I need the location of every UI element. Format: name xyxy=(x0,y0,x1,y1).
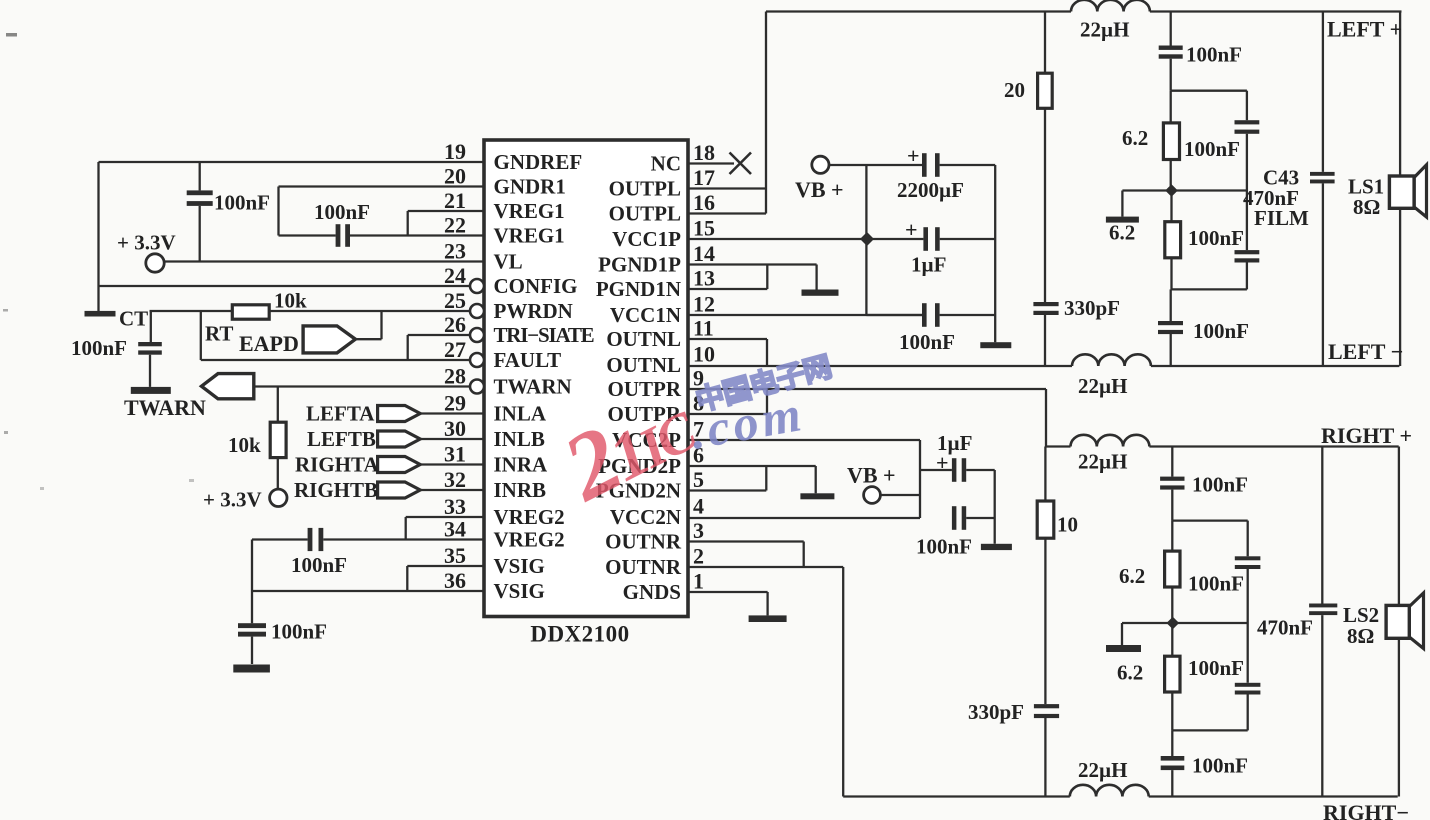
wire pin5 PGND2N xyxy=(688,489,766,491)
svg-text:10: 10 xyxy=(693,342,715,367)
svg-text:PGND1N: PGND1N xyxy=(596,277,681,301)
svg-text:TRI−SIATE: TRI−SIATE xyxy=(494,323,594,347)
ground PGND2 xyxy=(800,493,834,499)
svg-text:OUTNL: OUTNL xyxy=(606,327,681,351)
svg-text:11: 11 xyxy=(693,316,714,341)
tag RIGHTA input flag xyxy=(378,457,421,473)
svg-text:16: 16 xyxy=(693,190,715,215)
capacitor C6 2200uF xyxy=(922,153,927,177)
capacitor C9 1uF xyxy=(952,458,957,482)
wire junction to right branch R xyxy=(1173,622,1248,624)
wire R3 to 330pF xyxy=(1044,108,1046,302)
wire pin20 GNDR1 xyxy=(279,185,485,187)
svg-text:RIGHTB: RIGHTB xyxy=(294,478,378,502)
tag TWARN flag symbol xyxy=(202,374,254,399)
wire pin11-10 link xyxy=(766,339,768,365)
wire pin15 VCC1P to 1uF xyxy=(688,238,923,240)
capacitor C20 100nF (right bottom) xyxy=(1161,756,1185,761)
wire pin10 OUTNL long rail xyxy=(688,365,1072,367)
capacitor C8 100nF xyxy=(922,303,927,327)
wire pin35-36 link xyxy=(406,566,408,591)
svg-text:VL: VL xyxy=(494,250,523,274)
wire EAPD lead xyxy=(355,338,381,340)
wire right top rail A xyxy=(1046,445,1071,447)
svg-text:100nF: 100nF xyxy=(1192,754,1248,778)
wire C9 left lead xyxy=(920,469,952,471)
wire pin28 branch down xyxy=(277,387,279,423)
svg-text:23: 23 xyxy=(444,239,466,264)
svg-text:18: 18 xyxy=(693,140,715,165)
svg-text:17: 17 xyxy=(693,165,715,190)
no-connect X at pin 18 xyxy=(730,153,752,175)
terminal VB+ circle (left ch) xyxy=(812,156,829,173)
wire pin20 drop xyxy=(277,187,279,236)
wire pin26-pin27 link xyxy=(407,335,409,360)
wire to C20 xyxy=(1171,730,1173,756)
wire VB right vert (right ch) xyxy=(994,470,996,544)
svg-text:100nF: 100nF xyxy=(291,553,347,577)
svg-text:6.2: 6.2 xyxy=(1117,661,1143,685)
svg-text:10k: 10k xyxy=(274,289,307,313)
wire PGND1 ground drop xyxy=(815,265,817,290)
svg-text:OUTNR: OUTNR xyxy=(605,555,682,579)
svg-text:100nF: 100nF xyxy=(1188,226,1244,250)
svg-text:35: 35 xyxy=(444,543,466,568)
wire R6 stub from rail xyxy=(1044,447,1046,502)
wire 20ohm drop from rail xyxy=(1044,12,1046,74)
svg-text:RIGHT−: RIGHT− xyxy=(1323,800,1409,820)
wire VSIG branch down xyxy=(251,540,253,624)
capacitor C21 470nF xyxy=(1309,604,1337,608)
wire left bus vertical xyxy=(97,162,99,312)
tag LEFTB input flag xyxy=(378,431,421,447)
wire C8 to right vert xyxy=(940,314,996,316)
wire VB+ to 2200uF xyxy=(829,164,922,166)
svg-text:LEFTB: LEFTB xyxy=(307,427,376,451)
wire C15 to rail xyxy=(1170,334,1172,366)
wire pin18 NC stub xyxy=(688,162,734,164)
svg-text:RT: RT xyxy=(205,322,233,346)
wire right bottom rail A xyxy=(843,795,1070,797)
svg-text:22µH: 22µH xyxy=(1078,374,1127,398)
wire pin9 OUTPR long xyxy=(688,388,1046,390)
svg-text:DDX2100: DDX2100 xyxy=(530,622,629,647)
resistor R4 6.2 xyxy=(1163,123,1179,160)
terminal VB+ circle (right ch) xyxy=(864,487,881,504)
wire pin13-14 link xyxy=(766,265,768,290)
capacitor C3 100nF at CT xyxy=(138,342,162,346)
wire pin8-9 link xyxy=(766,389,768,414)
svg-text:100nF: 100nF xyxy=(314,200,370,224)
svg-text:VCC2N: VCC2N xyxy=(610,505,681,529)
svg-text:OUTNR: OUTNR xyxy=(605,530,682,554)
svg-text:VB +: VB + xyxy=(847,463,896,488)
wire pin12 VCC1N row xyxy=(688,314,922,316)
svg-text:100nF: 100nF xyxy=(271,620,327,644)
inductor L2 22uH (left bottom) xyxy=(1072,354,1151,366)
svg-text:21: 21 xyxy=(444,188,466,213)
terminal +3.3V circle (top) xyxy=(146,254,164,272)
svg-text:24: 24 xyxy=(444,263,466,288)
svg-text:100nF: 100nF xyxy=(1193,319,1249,343)
capacitor C2 100nF xyxy=(336,224,341,247)
svg-text:EAPD: EAPD xyxy=(239,331,299,356)
svg-text:28: 28 xyxy=(444,364,466,389)
capacitor C15 100nF (left bottom) xyxy=(1158,321,1183,325)
svg-text:470nF: 470nF xyxy=(1257,616,1313,640)
wire cap C12 stub from rail xyxy=(1170,12,1172,46)
wire pin2 OUTNR long xyxy=(688,566,843,568)
svg-text:2200µF: 2200µF xyxy=(897,178,964,202)
wire pin1 GNDS xyxy=(688,591,768,593)
ground left zobel xyxy=(1106,217,1139,223)
wire left top rail A xyxy=(766,10,1071,12)
svg-text:VREG2: VREG2 xyxy=(494,505,565,529)
svg-text:32: 32 xyxy=(444,467,466,492)
wire C21 drop from rail xyxy=(1321,447,1323,604)
svg-text:+: + xyxy=(907,143,920,168)
svg-text:4: 4 xyxy=(693,494,704,519)
wire C7 to right vert xyxy=(940,238,996,240)
svg-text:LEFT +: LEFT + xyxy=(1327,17,1402,42)
wire right branch mid xyxy=(1246,134,1248,250)
junction right zobel mid xyxy=(1167,617,1180,630)
svg-text:10: 10 xyxy=(1057,513,1078,537)
svg-text:CT: CT xyxy=(119,307,148,331)
wire LEFTB to pin 30 xyxy=(420,438,484,440)
resistor R6 10 xyxy=(1037,501,1054,538)
wire pin5-6 link xyxy=(765,466,767,491)
wire pin27 FAULT row xyxy=(201,359,470,361)
svg-text:INRA: INRA xyxy=(494,453,549,477)
wire branch mid R xyxy=(1247,569,1249,683)
wire pin35 VSIG xyxy=(407,565,484,567)
wire R4 stub xyxy=(1170,91,1172,123)
wire LS1 top lead xyxy=(1399,12,1401,177)
svg-text:100nF: 100nF xyxy=(1184,137,1240,161)
svg-text:+ 3.3V: + 3.3V xyxy=(203,488,262,512)
svg-text:29: 29 xyxy=(444,391,466,416)
wire VCC2P drop xyxy=(919,440,921,518)
wire 10k2 to +3.3V xyxy=(277,458,279,489)
svg-text:VREG1: VREG1 xyxy=(494,199,565,223)
wire junction to right branch xyxy=(1172,189,1247,191)
wire pin24 CONFIG to left bus xyxy=(99,285,471,287)
ground GNDS xyxy=(749,615,787,622)
resistor R2 10k xyxy=(270,422,286,457)
wire R6 to 330pF xyxy=(1044,538,1046,704)
svg-text:OUTPR: OUTPR xyxy=(608,377,682,401)
svg-text:330pF: 330pF xyxy=(968,700,1024,724)
wire pin33 VREG2 xyxy=(406,516,484,518)
capacitor C43 470nF film xyxy=(1310,172,1335,176)
svg-text:OUTPL: OUTPL xyxy=(609,177,681,201)
svg-text:8Ω: 8Ω xyxy=(1353,195,1380,219)
svg-text:100nF: 100nF xyxy=(1188,572,1244,596)
wire branch bottom row xyxy=(1171,288,1247,290)
wire pin3-2 link xyxy=(803,542,805,568)
wire VB+ right lead xyxy=(880,494,920,496)
svg-text:PWRDN: PWRDN xyxy=(494,299,573,323)
wire PGND2 ground drop xyxy=(815,466,817,493)
wire R4 to junction xyxy=(1170,160,1172,191)
svg-text:PGND1P: PGND1P xyxy=(598,253,681,277)
wire C10 right lead xyxy=(966,517,995,519)
resistor R1 10k (RT) xyxy=(232,305,269,319)
wire R7 stub xyxy=(1171,521,1173,552)
svg-text:VSIG: VSIG xyxy=(494,554,545,578)
pin 27 active-low circle xyxy=(470,353,484,367)
capacitor C1 100nF xyxy=(187,190,213,195)
wire cap C2 right lead to pin22 VREG1 xyxy=(350,234,484,236)
speaker LS2 symbol xyxy=(1409,593,1423,649)
wire left top rail B xyxy=(1150,10,1402,12)
wire right bottom rail B xyxy=(1149,795,1398,797)
svg-text:33: 33 xyxy=(444,494,466,519)
svg-text:LEFT −: LEFT − xyxy=(1328,339,1403,364)
wire C9 right lead xyxy=(966,469,995,471)
wire R5 top stub xyxy=(1170,191,1172,222)
inductor L4 22uH (right bottom) xyxy=(1070,785,1149,797)
wire pin16 OUTPL xyxy=(688,212,766,214)
capacitor C7 1uF xyxy=(923,227,928,251)
capacitor C5 100nF at VSIG xyxy=(238,623,266,628)
svg-text:3: 3 xyxy=(693,518,704,543)
wire R8 bottom xyxy=(1171,692,1173,730)
terminal +3.3V circle (lower) xyxy=(270,489,287,506)
wire cap C2 left lead xyxy=(279,234,336,236)
svg-text:FILM: FILM xyxy=(1254,206,1309,230)
svg-text:22µH: 22µH xyxy=(1078,450,1127,474)
watermark 21IC.com and Chinese text xyxy=(546,351,835,522)
wire VB bus vertical xyxy=(865,165,867,315)
svg-text:VREG1: VREG1 xyxy=(494,224,565,248)
wire pin4 VCC2N row xyxy=(688,517,920,519)
tag EAPD flag symbol xyxy=(303,326,355,353)
pin 28 active-low circle xyxy=(470,380,484,394)
wire CT node to 10k xyxy=(150,310,233,312)
svg-text:100nF: 100nF xyxy=(916,535,972,559)
wire LS2 bottom lead xyxy=(1398,638,1400,796)
svg-text:2: 2 xyxy=(693,544,704,569)
wire branch top row R xyxy=(1172,519,1247,521)
wire EAPD riser xyxy=(380,311,382,339)
resistor R8 6.2 xyxy=(1165,656,1180,692)
svg-text:VCC1N: VCC1N xyxy=(610,303,681,327)
wire pin7 VCC2P xyxy=(688,439,920,441)
svg-text:RIGHT +: RIGHT + xyxy=(1321,423,1412,448)
wire GNDS ground drop xyxy=(766,592,768,615)
capacitor C10 100nF xyxy=(952,506,957,530)
ground under C3 xyxy=(131,387,171,394)
svg-text:8Ω: 8Ω xyxy=(1347,624,1374,648)
wire junction arm R xyxy=(1122,622,1173,624)
ground VB right ch xyxy=(981,544,1012,550)
svg-text:22µH: 22µH xyxy=(1078,758,1127,782)
resistor R7 6.2 xyxy=(1165,551,1180,587)
ground right zobel xyxy=(1106,645,1141,652)
svg-text:VB +: VB + xyxy=(795,177,844,202)
svg-text:30: 30 xyxy=(444,416,466,441)
svg-text:10k: 10k xyxy=(228,433,261,457)
svg-text:FAULT: FAULT xyxy=(494,348,562,372)
wire RIGHTA to pin 31 xyxy=(420,463,484,465)
wire pin21-pin22 link xyxy=(407,211,409,236)
speaker LS1 symbol xyxy=(1414,165,1426,217)
wire to C15 xyxy=(1170,289,1172,321)
svg-text:1µF: 1µF xyxy=(911,253,946,277)
wire LEFTA to pin 29 xyxy=(420,412,484,414)
wire R7 to junction xyxy=(1171,587,1173,623)
svg-text:1µF: 1µF xyxy=(937,431,972,455)
wire pin33-34 link xyxy=(405,517,407,540)
wire C20 to rail xyxy=(1171,770,1173,796)
wire pin8 OUTPR xyxy=(688,413,767,415)
svg-text:INLA: INLA xyxy=(494,402,547,426)
pin 26 active-low circle xyxy=(470,328,484,342)
wire pin11 OUTNL xyxy=(688,338,767,340)
wire C11 to bottom rail xyxy=(1044,315,1046,366)
wire junction to ground arm xyxy=(1122,189,1171,191)
wire R5 bottom xyxy=(1170,258,1172,290)
svg-text:100nF: 100nF xyxy=(214,191,270,215)
svg-text:RIGHTA: RIGHTA xyxy=(295,453,379,477)
capacitor C18 100nF (branch) xyxy=(1235,556,1261,560)
svg-text:+ 3.3V: + 3.3V xyxy=(117,231,176,255)
wire C17 stub from rail xyxy=(1171,447,1173,477)
svg-text:100nF: 100nF xyxy=(1188,656,1244,680)
wire LS1 bottom lead xyxy=(1399,208,1401,366)
wire 10k to pin25 PWRDN xyxy=(269,310,470,312)
wire LS2 top lead xyxy=(1398,447,1400,606)
svg-text:CONFIG: CONFIG xyxy=(494,274,578,298)
svg-text:31: 31 xyxy=(444,442,466,467)
wire branch down A R xyxy=(1247,521,1249,557)
pin 24 active-low circle xyxy=(470,279,484,293)
svg-text:12: 12 xyxy=(693,292,715,317)
svg-text:34: 34 xyxy=(444,517,466,542)
wire C5 to ground xyxy=(251,637,253,664)
capacitor C4 100nF series VREG2 xyxy=(308,528,313,551)
ground PGND1 xyxy=(802,290,839,296)
wire pin6 PGND2P xyxy=(688,465,816,467)
wire right branch bottom xyxy=(1246,263,1248,290)
resistor R3 20 xyxy=(1038,73,1053,108)
wire C43 to bottom rail xyxy=(1322,183,1324,366)
svg-text:22µH: 22µH xyxy=(1080,18,1129,42)
wire left bottom rail B xyxy=(1151,365,1400,367)
wire OUTPL riser to top rail xyxy=(765,12,767,214)
wire C16 to bottom rail xyxy=(1044,718,1046,797)
svg-text:100nF: 100nF xyxy=(1186,43,1242,67)
wire C3 to ground xyxy=(149,355,151,387)
wire C1 bottom stub xyxy=(199,206,201,262)
svg-text:OUTPL: OUTPL xyxy=(609,202,681,226)
svg-text:1: 1 xyxy=(693,569,704,594)
wire branch bottom row R xyxy=(1172,729,1247,731)
tag LEFTA input flag xyxy=(378,406,421,422)
inductor L1 22uH (left top) xyxy=(1071,0,1150,12)
capacitor C11 330pF xyxy=(1033,302,1058,306)
wire pin17 OUTPL xyxy=(688,187,766,189)
wire left bottom rail A xyxy=(1071,365,1073,367)
capacitor C17 100nF xyxy=(1160,477,1184,481)
svg-text:+: + xyxy=(905,217,918,242)
wire C6 to right vert xyxy=(940,164,996,166)
svg-text:GNDS: GNDS xyxy=(623,580,681,604)
wire CT branch down xyxy=(200,311,202,360)
capacitor C19 100nF (branch) xyxy=(1235,683,1261,687)
svg-text:100nF: 100nF xyxy=(71,336,127,360)
wire branch bottom R xyxy=(1247,695,1249,731)
wire CT cap stub xyxy=(150,311,152,342)
junction left zobel mid xyxy=(1165,184,1178,197)
svg-text:TWARN: TWARN xyxy=(124,395,206,420)
ground under C5 xyxy=(233,665,270,673)
svg-text:330pF: 330pF xyxy=(1064,296,1120,320)
wire pin34 left segment xyxy=(252,538,308,540)
svg-text:TWARN: TWARN xyxy=(494,375,572,399)
wire C1 top stub xyxy=(199,162,201,190)
svg-text:15: 15 xyxy=(693,216,715,241)
scan speck marks xyxy=(6,33,17,37)
wire OUTNR drop to bottom rail xyxy=(842,567,844,797)
svg-text:27: 27 xyxy=(444,337,466,362)
svg-text:20: 20 xyxy=(1004,78,1025,102)
svg-text:19: 19 xyxy=(444,139,466,164)
svg-text:22: 22 xyxy=(444,213,466,238)
wire RIGHTB to pin 32 xyxy=(420,489,484,491)
svg-text:100nF: 100nF xyxy=(1192,473,1248,497)
wire C43 drop from rail xyxy=(1322,12,1324,172)
wire VB right vertical xyxy=(994,165,996,342)
capacitor C13 100nF (branch) xyxy=(1235,120,1260,124)
svg-text:6.2: 6.2 xyxy=(1122,126,1148,150)
svg-text:VCC1P: VCC1P xyxy=(612,227,681,251)
wire pin13 PGND1N xyxy=(688,288,767,290)
wire pin3 OUTNR xyxy=(688,540,804,542)
junction VB bus x VCC1P xyxy=(860,232,874,246)
svg-text:6.2: 6.2 xyxy=(1119,564,1145,588)
wire pin23 VL from +3.3V xyxy=(164,260,484,262)
tag RIGHTB input flag xyxy=(378,482,421,498)
wire C17 down xyxy=(1171,490,1173,521)
op-amp U1 DDX2100 class-D amplifier IC body xyxy=(484,140,688,617)
capacitor C16 330pF xyxy=(1034,704,1059,708)
svg-text:OUTNL: OUTNL xyxy=(606,353,681,377)
svg-text:14: 14 xyxy=(693,241,715,266)
svg-text:36: 36 xyxy=(444,568,466,593)
wire TWARN to pin28 xyxy=(254,385,470,387)
wire right branch down A xyxy=(1246,91,1248,121)
svg-text:26: 26 xyxy=(444,312,466,337)
wire right top rail B xyxy=(1149,445,1398,447)
wire pin36 VSIG row xyxy=(252,590,484,592)
wire R8 top stub xyxy=(1171,623,1173,656)
wire C21 to bottom rail xyxy=(1321,615,1323,796)
wire pin21 VREG1 xyxy=(408,210,484,212)
wire pin34 right segment xyxy=(323,538,484,540)
capacitor C14 100nF (branch) xyxy=(1235,250,1260,254)
svg-text:INLB: INLB xyxy=(494,427,545,451)
svg-text:100nF: 100nF xyxy=(899,330,955,354)
wire arm drop R xyxy=(1121,623,1123,645)
svg-text:VREG2: VREG2 xyxy=(494,528,565,552)
svg-text:GNDR1: GNDR1 xyxy=(494,175,566,199)
wire ground arm drop xyxy=(1121,191,1123,217)
svg-text:6.2: 6.2 xyxy=(1109,221,1135,245)
svg-text:NC: NC xyxy=(651,152,681,176)
